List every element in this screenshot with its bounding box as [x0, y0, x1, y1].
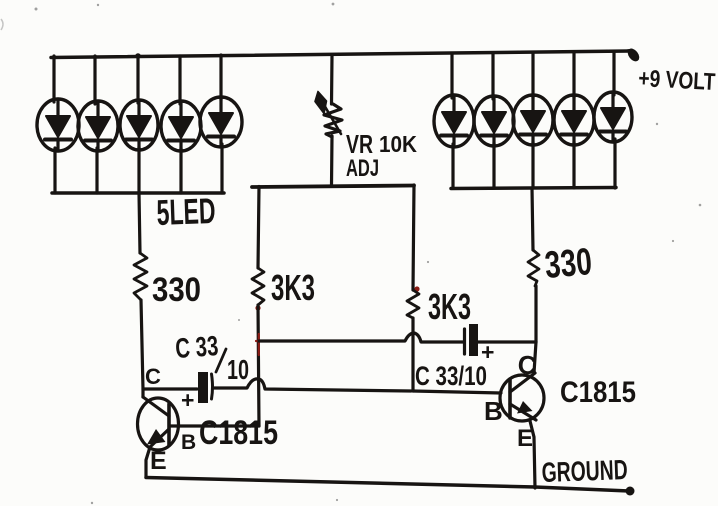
junction: red dot above R4: [414, 286, 419, 291]
label: C33/10 (C1 value): [174, 330, 249, 385]
svg-text:C1815: C1815: [560, 376, 636, 409]
potentiometer VR 10K: [315, 56, 342, 185]
LED D5 (left bank) with leads: [200, 55, 242, 193]
label: C1 polarity +: [181, 387, 194, 413]
wire: cross-coupling C2 left plate to Q1 base node (hops over R4 vertical): [259, 333, 464, 342]
wire: right bus down to R2: [532, 188, 533, 250]
svg-text:ADJ: ADJ: [346, 155, 379, 182]
LED D6 (right bank) with leads: [434, 55, 474, 189]
label: VR 10K: [346, 129, 417, 159]
label: 330 (R2 value): [543, 241, 593, 287]
label: slash of C1 value: [216, 349, 226, 372]
svg-text:B: B: [181, 431, 196, 454]
wire: Q2 collector up to R2: [534, 342, 536, 373]
svg-text:10: 10: [227, 354, 249, 385]
svg-text:10K: 10K: [379, 131, 417, 157]
transistor Q1 C1815: [138, 397, 179, 450]
wire: left LED bank cathode bus: [52, 191, 224, 195]
LED D8 (right bank) with leads: [513, 54, 553, 189]
resistor R1 330 (left): [134, 253, 147, 300]
label: 3K3 (R3 value): [271, 267, 315, 308]
node: ground terminal dot: [626, 487, 635, 496]
resistor R3 3K3 (left): [252, 268, 264, 305]
wire: Q1 emitter to ground rail: [146, 447, 150, 477]
label: C 33/10 (C2 value): [415, 361, 487, 391]
junction: red dot below R3: [255, 305, 260, 310]
LED D1 (left bank) with leads: [37, 56, 79, 193]
svg-text:3K3: 3K3: [428, 286, 471, 327]
wire: Q1 base line: [170, 424, 259, 427]
LED D4 (left bank) with leads: [161, 56, 201, 193]
wire: R4 down to Q2 base node: [411, 318, 414, 391]
LED D3 (left bank) with leads: [120, 56, 158, 193]
resistor R4 3K3 (right): [407, 290, 419, 318]
label: C2 polarity +: [481, 339, 494, 365]
capacitor C2 33/10 (right, electrolytic): [465, 324, 479, 356]
wire: Q2 base line: [413, 391, 501, 393]
transistor Q2 C1815: [500, 373, 544, 421]
wire: C2 right plate to Q2 collector node: [478, 340, 536, 343]
label: C1815 (Q2 part number): [560, 376, 636, 409]
label: Q1 pin B: [181, 431, 196, 454]
wire: R1 to Q1 collector node: [141, 300, 143, 397]
label: C1815 (Q1 part number): [199, 414, 278, 452]
LED D9 (right bank) with leads: [554, 53, 594, 188]
label: GROUND: [541, 454, 628, 488]
svg-text:C1815: C1815: [199, 414, 278, 452]
svg-text:5LED: 5LED: [156, 190, 216, 233]
wire: Q2 emitter down to ground rail: [530, 421, 535, 488]
wire: left bus down to R1: [139, 193, 140, 253]
wire: right LED bank cathode bus: [451, 188, 616, 189]
LED D2 (left bank) with leads: [78, 56, 118, 193]
wire: ground rail: [146, 478, 629, 492]
wire: middle line down to R4 (right 3K3): [413, 185, 414, 290]
wire: +9V top supply rail: [51, 51, 630, 58]
node: +9V supply terminal arrow and dot: [616, 47, 641, 63]
svg-text:+9 VOLT: +9 VOLT: [638, 65, 717, 96]
wire: middle bias line (VR bottom and 3K3 tops): [252, 186, 414, 188]
junction: Q1 base / C2 node (red tick): [256, 334, 265, 355]
svg-text:3K3: 3K3: [271, 267, 315, 308]
label: 3K3 (R4 value): [428, 286, 471, 327]
wire: R3 down through crossover to Q1 base node: [258, 305, 259, 426]
LED D7 (right bank) with leads: [474, 54, 514, 188]
label: +9 VOLT net name: [638, 65, 717, 96]
capacitor C1 33/10 (left, electrolytic): [143, 372, 213, 403]
svg-text:+: +: [181, 387, 194, 413]
label: 330 (R1 value): [152, 271, 201, 309]
svg-text:330: 330: [152, 271, 201, 309]
label: Q1 pin E: [150, 447, 167, 475]
label: ADJ: [346, 155, 379, 182]
svg-text:C 33: C 33: [174, 330, 219, 364]
svg-text:E: E: [150, 447, 167, 475]
junction: supply rail to left LED string (x=138): [135, 53, 141, 59]
label: Q2 pin C: [516, 349, 538, 381]
wire: R2 to C2/collector junction: [534, 286, 537, 342]
svg-text:C 33/10: C 33/10: [415, 361, 487, 391]
wire: middle line down to R3 (left 3K3): [258, 187, 259, 269]
LED D10 (right bank) with leads: [594, 52, 632, 188]
svg-text:B: B: [484, 396, 503, 426]
label: Q2 pin B: [484, 396, 503, 426]
label: 5LED: [156, 190, 216, 233]
label: Q2 pin E: [517, 425, 533, 452]
svg-text:GROUND: GROUND: [541, 454, 628, 488]
wire: C1 right plate to Q2 base node (hops over Q1 base vertical): [213, 379, 411, 391]
resistor R2 330 (right): [528, 250, 539, 286]
svg-text:C: C: [145, 364, 161, 389]
label: Q1 pin C: [145, 364, 161, 389]
svg-text:330: 330: [543, 241, 593, 287]
